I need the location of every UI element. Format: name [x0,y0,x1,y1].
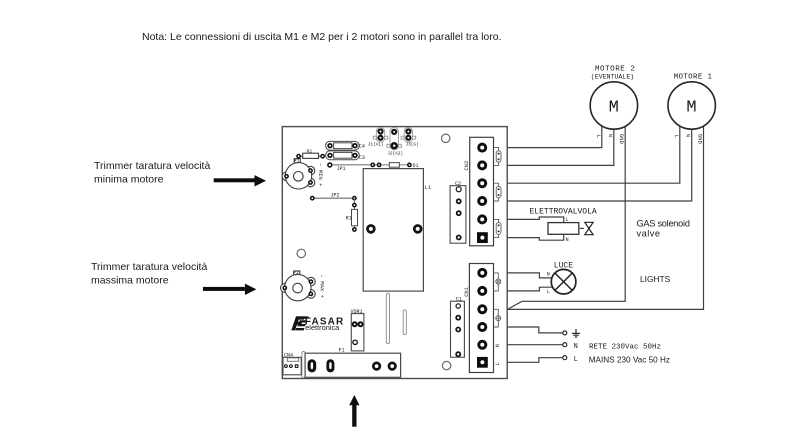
svg-text:MOTORE 2: MOTORE 2 [595,65,635,73]
svg-text:GAS solenoid: GAS solenoid [637,219,690,229]
jumper JP1 [330,164,373,166]
wire CN2.1 to motor2 L [507,126,602,147]
svg-text:R1: R1 [346,216,352,222]
svg-text:minima motore: minima motore [94,174,164,186]
inductor L1 box [363,169,423,292]
svg-text:J2(A2): J2(A2) [387,152,403,157]
svg-text:M: M [686,99,696,118]
svg-text:- MAX +: - MAX + [318,275,325,299]
svg-text:Nota: Le connessioni di uscita: Nota: Le connessioni di uscita M1 e M2 p… [142,31,502,43]
connector J1 pads [376,127,384,142]
wire motor1 GND [507,126,703,309]
lamp symbol [551,269,576,294]
resistor R1 [353,198,355,229]
svg-text:Trimmer taratura velocità: Trimmer taratura velocità [94,160,210,172]
L1 pad left [366,224,376,234]
mounting hole bottom-right [442,361,450,369]
svg-text:VDR1: VDR1 [351,309,363,315]
svg-text:J3(G): J3(G) [406,142,419,147]
svg-text:valve: valve [637,228,661,238]
svg-text:GND: GND [618,134,625,145]
wire valve L [507,217,564,223]
valve link dash [580,227,584,229]
resistor R2 [301,153,321,158]
arrow to P2 [203,284,256,295]
svg-text:P1: P1 [294,159,300,165]
svg-text:RETE 230Vac 50Hz: RETE 230Vac 50Hz [589,344,661,352]
svg-text:ELETTROVALVOLA: ELETTROVALVOLA [530,207,597,216]
svg-text:N: N [607,134,614,137]
wire lamp L [507,287,552,291]
motor M1 circle [668,82,715,129]
svg-text:Trimmer taratura velocità: Trimmer taratura velocità [91,261,207,273]
capacitor C4 [326,141,360,150]
svg-text:L: L [574,356,578,364]
connector J3 pads [404,127,412,142]
slot hole right under L1 [403,310,406,335]
link lamp pins1-2 CN1 [494,273,501,291]
svg-text:L: L [547,289,550,295]
motor M2 circle [590,82,637,129]
wire CN2.2 to motor2 N [507,129,614,165]
svg-text:massima motore: massima motore [91,275,169,287]
svg-text:JP1: JP1 [337,166,346,172]
svg-text:CN1: CN1 [464,287,470,297]
mounting hole top-right [442,134,450,142]
slot hole left under L1 [386,293,389,343]
svg-text:C3: C3 [359,155,365,161]
capacitor C3 [326,151,360,160]
FASAR logo glyph [291,316,308,330]
svg-text:JP2: JP2 [331,193,340,199]
trimmer P2 [281,271,316,301]
wire earth [507,327,563,333]
svg-text:R2: R2 [307,149,313,155]
link gnd pins3-4 CN1 [494,309,501,327]
svg-text:M: M [609,99,619,118]
wire CN2.4 to motor1 N [507,129,692,201]
link component pins1-2 CN2 [494,148,502,166]
diode D1 row [373,164,410,166]
svg-text:N: N [547,271,550,277]
svg-text:elettronica: elettronica [305,323,340,332]
jumper JP2 [312,197,354,199]
svg-text:N: N [495,344,501,347]
svg-text:LIGHTS: LIGHTS [640,274,671,284]
svg-text:MAINS 230 Vac 50 Hz: MAINS 230 Vac 50 Hz [589,356,670,365]
wire lamp N [507,273,552,278]
svg-text:N: N [574,343,578,351]
wire valve N [507,234,564,240]
mounting hole left [297,249,305,257]
svg-text:CN2: CN2 [464,161,470,171]
L1 pad right [413,224,423,234]
svg-text:- MIN +: - MIN + [317,163,324,187]
bottom arrow [349,395,359,427]
wire CN2.3 to motor1 L [507,126,680,183]
wire mains N [507,344,563,346]
ground symbol [572,329,580,337]
svg-text:N: N [566,237,569,243]
connector CN2 [470,137,494,246]
trimmer P1 [282,159,315,189]
wire motor2 GND [508,126,626,309]
solenoid coil box [548,223,579,235]
svg-text:C4: C4 [359,144,365,150]
svg-text:J1(A1): J1(A1) [368,142,384,147]
svg-text:L: L [673,135,680,138]
svg-text:L: L [495,362,501,365]
svg-text:N: N [685,134,692,137]
wire mains L [507,358,563,363]
valve symbol [585,222,593,234]
PCB board outline [282,127,507,379]
varistor VDR1 [351,314,364,351]
fuse holder slot [302,352,305,378]
svg-text:(EVENTUALE): (EVENTUALE) [591,73,634,80]
svg-text:L: L [595,135,602,138]
connector CN1 [469,264,493,373]
link component pins3-4 CN2 [494,183,502,201]
svg-text:P2: P2 [293,270,299,276]
arrow to P1 [214,175,266,186]
svg-text:MOTORE 1: MOTORE 1 [674,73,713,81]
svg-text:L1: L1 [425,185,431,191]
link component pins5-6 CN2 [494,219,502,237]
svg-text:D1: D1 [413,163,419,169]
connector J2 pads [390,127,398,149]
svg-text:GND: GND [696,134,703,145]
